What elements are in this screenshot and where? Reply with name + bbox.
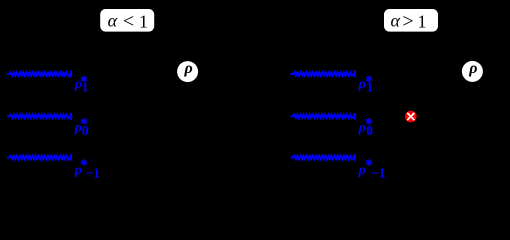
squiggle level rho_1 left xyxy=(7,71,72,78)
squiggle level rho_0 right xyxy=(290,113,356,120)
density marker rho left xyxy=(177,60,198,82)
svg-text:−1: −1 xyxy=(371,166,386,181)
label rho_-1^* left xyxy=(74,160,100,181)
label rho_-1^* right xyxy=(358,160,386,181)
svg-text:ρ: ρ xyxy=(358,121,366,136)
label rho_0^* right xyxy=(358,119,374,139)
svg-text:ρ: ρ xyxy=(74,77,82,92)
label rho_1^* left xyxy=(74,76,89,94)
svg-text:ρ: ρ xyxy=(358,77,366,92)
svg-text:ρ: ρ xyxy=(183,60,192,77)
label rho_0^* left xyxy=(74,119,89,139)
density marker rho right xyxy=(462,60,483,82)
squiggle level rho_0 left xyxy=(7,113,72,120)
svg-text:0: 0 xyxy=(366,123,373,138)
svg-text:α>1: α>1 xyxy=(390,10,426,32)
svg-text:ρ: ρ xyxy=(468,60,477,77)
title box alpha &gt; 1 xyxy=(384,9,438,32)
squiggle level rho_1 right xyxy=(290,71,356,78)
svg-text:ρ: ρ xyxy=(358,163,366,178)
svg-text:0: 0 xyxy=(82,123,89,138)
squiggle level rho_-1 left xyxy=(7,154,72,161)
svg-text:α<1: α<1 xyxy=(108,10,148,32)
squiggle level rho_-1 right xyxy=(290,154,356,161)
excluded density marker (red circle with white X) xyxy=(405,111,417,123)
title box alpha &lt; 1 xyxy=(100,9,154,32)
svg-text:−1: −1 xyxy=(86,166,101,181)
svg-text:ρ: ρ xyxy=(74,163,82,178)
svg-text:1: 1 xyxy=(366,80,373,95)
svg-text:1: 1 xyxy=(82,80,89,95)
label rho_1^* right xyxy=(358,76,374,94)
